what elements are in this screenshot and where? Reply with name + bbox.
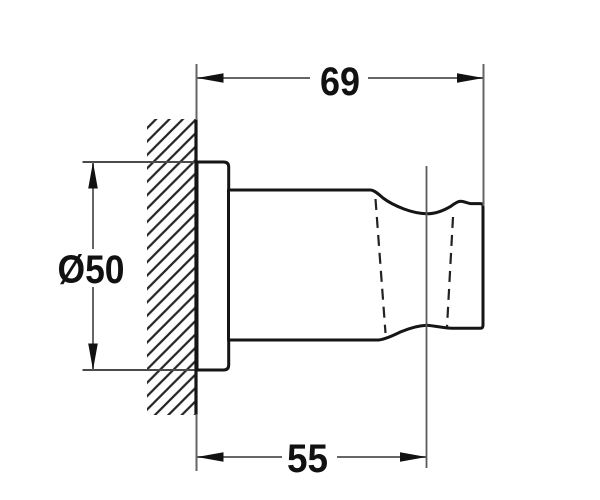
svg-text:69: 69	[320, 60, 360, 104]
svg-text:55: 55	[287, 437, 328, 481]
svg-text:Ø50: Ø50	[58, 248, 125, 292]
